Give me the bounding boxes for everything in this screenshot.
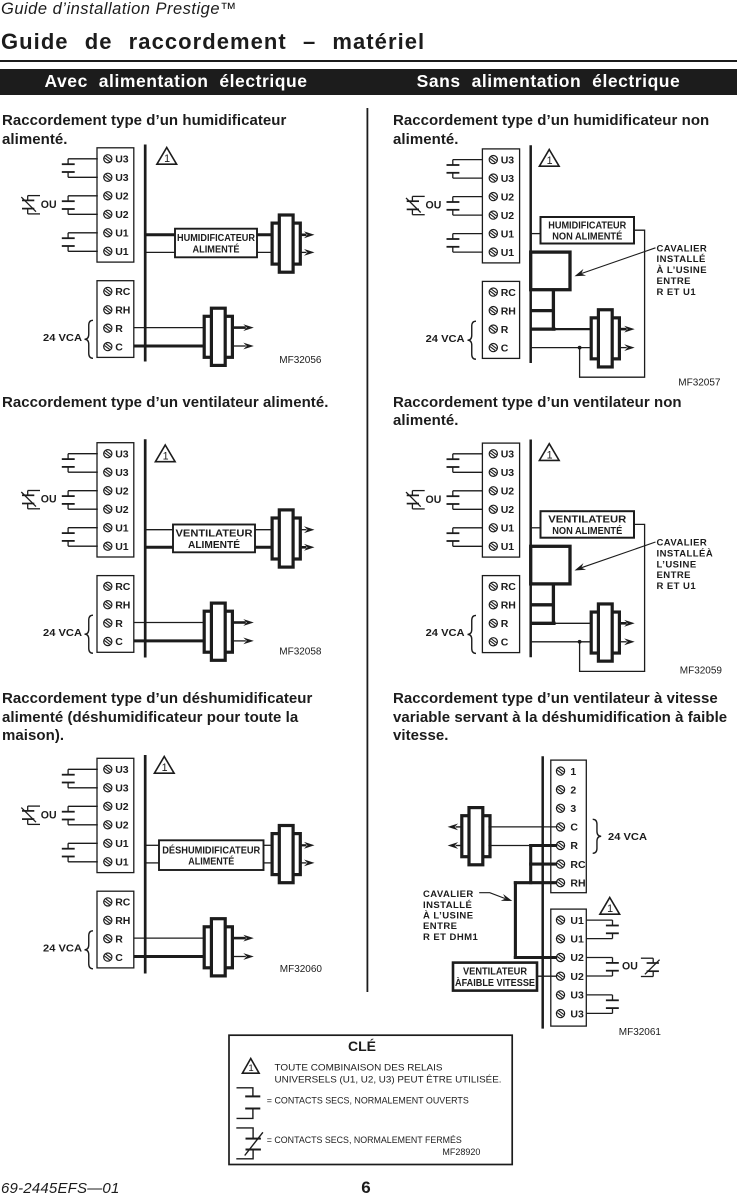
terminal U1 (U relays (D4)) [489,542,497,550]
terminal RH (power (D4)) [489,601,497,609]
wire U1b to load (D1) [146,251,175,253]
device box VENTILATEUR D3 [173,525,255,553]
wire C (D3) [134,639,206,642]
note CAVALIER (D2) [657,243,708,298]
terminal U2 (U relays (D4)) [489,487,497,495]
svg-text:HUMIDIFICATEUR: HUMIDIFICATEUR [548,219,626,231]
svg-text:RC: RC [115,897,131,909]
svg-text:U3: U3 [501,154,515,166]
svg-text:VENTILATEUR: VENTILATEUR [176,528,253,540]
arrow lower out a (D3) [233,621,246,624]
terminal block power (D2) [482,281,519,358]
terminal R (power (D3)) [104,619,112,627]
svg-text:À L’USINE: À L’USINE [423,911,474,922]
svg-text:VENTILATEUR: VENTILATEUR [548,514,626,526]
svg-text:RC: RC [570,859,586,871]
wire load to connector a (D5) [264,844,274,846]
svg-text:DÉSHUMIDIFICATEUR: DÉSHUMIDIFICATEUR [162,843,260,856]
warning symbol 1 D3 [155,445,175,463]
wire fan to U2 (D6) [537,975,556,977]
terminal C (power (D2)) [489,344,497,352]
terminal block power (D1) [97,281,134,358]
leader arrow to jumper (D2) [582,248,656,274]
svg-text:RH: RH [570,877,585,889]
brace 24 VCA (D6) [593,819,602,853]
terminal U2 (U relays (D5)) [104,821,112,829]
jumper loop R-U1 (D2) [531,252,570,290]
svg-text:OU: OU [426,494,442,506]
terminal block U relays (D1) [97,148,134,262]
jumper loop R-U1 (D4) [531,546,570,584]
jumper RH bar (D2) [530,309,554,312]
wire U1b to load (D5) [146,862,159,864]
wire U1b to load (D3) [146,546,173,549]
terminal U2 (U relays (D1)) [104,192,112,200]
svg-text:C: C [501,637,509,649]
page title [1,29,425,55]
svg-text:RC: RC [501,581,517,593]
note CAVALIER (D6) [423,889,479,943]
jumper R bar (D2) [530,327,556,330]
svg-text:R: R [115,933,123,945]
svg-text:U2: U2 [501,486,515,498]
svg-text:RH: RH [115,305,130,317]
svg-text:ALIMENTÉ: ALIMENTÉ [188,855,234,868]
svg-text:INSTALLÉ: INSTALLÉ [423,900,472,911]
svg-text:= CONTACTS SECS, NORMALEMENT F: = CONTACTS SECS, NORMALEMENT FERMÉS [267,1135,462,1146]
connector upper (D3) [272,510,300,567]
terminal RC (power (D2)) [489,288,497,296]
svg-text:1: 1 [163,451,169,463]
svg-text:U2: U2 [115,504,129,516]
connector lower (D5) [204,919,232,976]
arrow upper out a (D1) [300,234,306,237]
connector lower (D1) [204,308,232,365]
svg-text:U1: U1 [570,915,584,927]
wire U1 to load (D4) [532,527,541,529]
terminal U2 (U relays (D6)) [556,953,564,961]
contact NC alternative (D2) [406,196,425,214]
wire load to connector a (D1) [257,233,274,236]
terminal U3 (U relays (D1)) [104,155,112,163]
wire bus D4 [529,440,532,658]
contact NO U2 relay input (D1) [62,196,98,215]
terminal U3 (U relays (D3)) [104,468,112,476]
contact NO U1 relay input (D3) [62,528,98,547]
svg-text:U2: U2 [501,210,515,222]
svg-text:ENTRE: ENTRE [657,276,691,287]
svg-text:NON ALIMENTÉ: NON ALIMENTÉ [552,230,622,243]
junction C junction (D4) [578,640,582,644]
terminal U3 (U relays (D2)) [489,174,497,182]
terminal U2 (U relays (D2)) [489,211,497,219]
contact NO U2 relay input (D2) [447,197,483,216]
wire C (D5) [134,955,206,958]
wire C (D2) [532,347,593,349]
note CAVALIER (D4) [657,538,714,593]
svg-text:1: 1 [248,1063,253,1074]
svg-text:OU: OU [41,494,57,506]
wire load return loop (D4) [580,524,645,671]
terminal 1 (EIM power (D6)) [556,767,564,775]
svg-text:U1: U1 [115,522,129,534]
svg-text:MF32060: MF32060 [280,964,323,975]
svg-text:U3: U3 [501,173,515,185]
terminal RC (power (D3)) [104,582,112,590]
svg-text:U3: U3 [501,467,515,479]
wire bus D5 [144,755,147,974]
svg-text:U3: U3 [115,783,129,795]
terminal block U relays (D5) [97,758,134,872]
svg-text:U1: U1 [115,228,129,240]
svg-text:MF32057: MF32057 [678,378,721,389]
svg-text:1: 1 [547,449,553,461]
connector (D2) [591,310,619,367]
jumper RC bar (D6) [529,863,556,866]
terminal R (power (D2)) [489,325,497,333]
jumper R stub (D6) [529,844,556,847]
svg-text:VENTILATEUR: VENTILATEUR [463,966,527,978]
svg-text:U1: U1 [115,857,129,869]
wire C (D1) [134,345,206,348]
terminal C (power (D1)) [104,343,112,351]
arrow lower out b (D1) [233,345,246,347]
wire U1a to load (D1) [146,233,175,236]
contact NO U3 relay input (D2) [447,160,483,179]
svg-text:R: R [501,618,509,630]
svg-text:3: 3 [570,803,576,815]
terminal RC (power (D5)) [104,898,112,906]
svg-text:24 VCA: 24 VCA [43,333,82,344]
wire load to connector b (D3) [255,546,274,549]
svg-text:U3: U3 [115,172,129,184]
jumper RH bar (D6) [514,881,557,884]
brace 24 VCA (D5) [85,931,94,969]
terminal U2 (U relays (D4)) [489,505,497,513]
terminal RH (EIM power (D6)) [556,879,564,887]
svg-text:MF32061: MF32061 [619,1027,662,1038]
brace 24 VCA (D2) [468,321,477,359]
svg-text:U1: U1 [501,247,515,259]
contact NO U1 relay input (D4) [447,528,483,547]
terminal RC (power (D4)) [489,582,497,590]
arrow upper out a (D5) [300,844,306,846]
terminal U3 (U relays (D4)) [489,468,497,476]
terminal R (power (D5)) [104,935,112,943]
terminal RC (EIM power (D6)) [556,860,564,868]
svg-text:UNIVERSELS (U1, U2, U3) PEUT Ê: UNIVERSELS (U1, U2, U3) PEUT ÊTRE UTILIS… [275,1074,502,1084]
contact NO U2 relay input (D5) [62,806,98,825]
wire load to connector a (D3) [255,529,274,531]
svg-text:24 VCA: 24 VCA [608,832,647,843]
wire R (D6) [488,845,529,847]
svg-text:U1: U1 [115,541,129,553]
leader arrow to jumper (D6) [479,893,505,899]
terminal C (EIM power (D6)) [556,823,564,831]
svg-text:MF32056: MF32056 [279,355,322,366]
brace 24 VCA (D3) [85,615,94,653]
wire bus D3 [144,439,147,657]
wire R (D3) [134,622,206,624]
svg-text:U2: U2 [570,952,584,964]
svg-text:TOUTE COMBINAISON DES RELAIS: TOUTE COMBINAISON DES RELAIS [275,1062,443,1072]
svg-text:24 VCA: 24 VCA [43,628,82,639]
svg-text:ALIMENTÉ: ALIMENTÉ [193,242,240,255]
svg-text:1: 1 [162,762,168,774]
terminal R (power (D4)) [489,619,497,627]
contact NO U1 relay input (D5) [62,843,98,862]
svg-text:U1: U1 [115,246,129,258]
terminal block power (D4) [482,576,519,653]
contact NC alternative (D3) [21,491,40,509]
svg-text:OU: OU [41,199,57,211]
svg-text:CAVALIER: CAVALIER [657,538,708,549]
legend contact NC symbol [236,1128,263,1159]
svg-text:RH: RH [115,915,130,927]
svg-text:U2: U2 [115,191,129,203]
contact NO U1 relay input (D2) [447,234,483,253]
wire bus D2 [529,145,532,363]
svg-text:RH: RH [501,305,516,317]
svg-text:L’USINE: L’USINE [657,559,697,570]
arrow out a (D6) [456,826,462,828]
terminal U3 (U relays (D3)) [104,450,112,458]
svg-text:C: C [570,822,578,834]
svg-text:24 VCA: 24 VCA [426,334,465,345]
svg-text:INSTALLÉ: INSTALLÉ [657,254,706,265]
terminal RH (power (D1)) [104,306,112,314]
svg-text:HUMIDIFICATEUR: HUMIDIFICATEUR [177,232,255,244]
terminal U2 (U relays (D3)) [104,505,112,513]
svg-text:U2: U2 [501,504,515,516]
svg-text:ENTRE: ENTRE [423,921,457,932]
svg-text:1: 1 [547,155,553,167]
svg-text:CAVALIER: CAVALIER [423,889,474,900]
contact NO U3 relay input (D3) [62,454,98,473]
svg-text:U3: U3 [501,449,515,461]
svg-text:RH: RH [501,600,516,612]
svg-text:R ET DHM1: R ET DHM1 [423,932,479,943]
svg-text:U1: U1 [115,838,129,850]
title rule [0,60,737,62]
headings [2,112,286,149]
contact NO U3 relay input (D4) [447,454,483,473]
svg-text:CLÉ: CLÉ [348,1038,376,1054]
terminal RH (power (D3)) [104,601,112,609]
svg-text:RH: RH [115,599,130,611]
contact NC alternative (D1) [21,196,40,214]
terminal U2 (U relays (D6)) [556,972,564,980]
jumper U2 bar (D6) [514,956,557,959]
terminal U1 (U relays (D1)) [104,229,112,237]
jumper vertical (D2) [552,289,555,331]
wire bus D6 [541,756,544,1028]
svg-text:U3: U3 [115,448,129,460]
terminal RH (power (D5)) [104,916,112,924]
arrow out a (D4) [619,622,626,625]
svg-text:1: 1 [164,153,170,165]
terminal U3 (U relays (D6)) [556,1010,564,1018]
arrow upper out a (D3) [300,529,306,531]
svg-text:C: C [115,341,123,353]
wire load to connector b (D1) [257,251,274,253]
svg-text:U3: U3 [570,990,584,1002]
svg-text:INSTALLÉÀ: INSTALLÉÀ [657,548,714,559]
brace 24 VCA (D1) [85,320,94,358]
svg-text:U2: U2 [115,209,129,221]
device box DÉSHUMIDIFICATEUR D5 [159,840,264,870]
svg-text:U2: U2 [115,820,129,832]
connector upper (D5) [272,826,300,883]
warning symbol 1 D1 [157,148,177,166]
terminal block U relays (D6) [551,909,587,1026]
arrow out a (D2) [619,328,626,331]
terminal block U relays (D3) [97,443,134,557]
contact NO U3 relay input (D1) [62,159,98,178]
svg-text:C: C [115,952,123,964]
svg-text:U3: U3 [115,154,129,166]
terminal U2 (U relays (D2)) [489,193,497,201]
wire U1a to load (D5) [146,844,159,846]
svg-text:MF32059: MF32059 [680,666,723,677]
column divider [367,108,369,992]
terminal U1 (U relays (D3)) [104,524,112,532]
svg-text:C: C [115,636,123,648]
footer [1,1180,120,1195]
svg-text:24 VCA: 24 VCA [426,628,465,639]
svg-text:OU: OU [622,961,638,973]
terminal 3 (EIM power (D6)) [556,804,564,812]
svg-text:RC: RC [501,287,517,299]
svg-text:U2: U2 [501,191,515,203]
contact NC alternative (D5) [21,806,40,824]
terminal U1 (U relays (D2)) [489,230,497,238]
wire U1a to load (D3) [146,529,173,531]
terminal U3 (U relays (D1)) [104,173,112,181]
terminal RH (power (D2)) [489,307,497,315]
svg-text:À L’USINE: À L’USINE [657,265,708,276]
jumper vertical RH-U2 (D6) [514,881,517,959]
contact NC alternative (D6) [641,958,660,976]
contact NO U2 relay input (D3) [62,491,98,510]
terminal R (power (D1)) [104,324,112,332]
warning symbol 1 D6 [600,898,620,916]
svg-text:RC: RC [115,581,131,593]
svg-text:2: 2 [570,784,576,796]
warning symbol 1 D2 [539,150,559,168]
svg-text:NON ALIMENTÉ: NON ALIMENTÉ [552,524,622,537]
svg-text:U1: U1 [501,228,515,240]
device box HUMIDIFICATEUR D2 [541,217,635,244]
wire R (D2) [555,328,593,330]
contact NO U1 relay input (D1) [62,233,98,252]
svg-text:U3: U3 [570,1008,584,1020]
contact NO U3 relay input (D5) [62,769,98,788]
svg-text:ALIMENTÉ: ALIMENTÉ [188,538,240,551]
arrow upper out b (D5) [300,862,306,864]
terminal U3 (U relays (D2)) [489,156,497,164]
wire R (D5) [134,937,206,939]
svg-text:RC: RC [115,286,131,298]
arrow out b (D2) [619,347,626,349]
svg-text:ENTRE: ENTRE [657,570,691,581]
svg-text:OU: OU [426,200,442,212]
arrow lower out b (D3) [233,640,246,642]
warning symbol 1 D4 [539,444,559,462]
running header [1,0,237,19]
terminal C (power (D3)) [104,637,112,645]
terminal U1 (U relays (D6)) [556,935,564,943]
terminal U1 (U relays (D4)) [489,524,497,532]
svg-text:R: R [115,618,123,630]
svg-text:1: 1 [570,766,576,778]
jumper vertical (D4) [552,583,555,625]
terminal block U relays (D2) [482,149,519,263]
leader arrow to jumper (D4) [582,542,656,568]
terminal U3 (U relays (D4)) [489,450,497,458]
terminal U3 (U relays (D5)) [104,784,112,792]
junction C junction (D2) [578,346,582,350]
terminal U1 (U relays (D6)) [556,916,564,924]
svg-text:U2: U2 [570,971,584,983]
jumper R bar (D4) [530,622,556,625]
svg-text:OU: OU [41,809,57,821]
connector lower (D3) [204,603,232,660]
device box HUMIDIFICATEUR D1 [175,229,257,258]
warning symbol 1 D5 [154,757,174,775]
svg-text:U3: U3 [115,467,129,479]
wire C (D6) [488,826,556,828]
svg-text:R: R [501,324,509,336]
svg-text:U1: U1 [501,541,515,553]
terminal U1 (U relays (D2)) [489,248,497,256]
jumper vertical R-RH (D6) [529,844,532,884]
arrow upper out b (D1) [300,251,306,253]
warning symbol 1 legend [242,1059,259,1075]
connector (D4) [591,604,619,661]
arrow lower out a (D1) [233,326,246,329]
terminal U1 (U relays (D5)) [104,858,112,866]
svg-text:U2: U2 [115,485,129,497]
svg-text:CAVALIER: CAVALIER [657,243,708,254]
contact NO U3 relay input (D6) [586,995,619,1014]
device box VENTILATEUR D4 [541,511,635,538]
arrow upper out b (D3) [300,546,306,549]
terminal U2 (U relays (D1)) [104,210,112,218]
arrow lower out b (D5) [233,956,246,958]
terminal block power (D5) [97,891,134,968]
terminal C (power (D4)) [489,638,497,646]
terminal block power (D3) [97,576,134,653]
contact NO U2 relay input (D4) [447,491,483,510]
column header bar [0,69,737,95]
terminal RC (power (D1)) [104,287,112,295]
wire load to connector b (D5) [264,862,274,864]
wire C (D4) [532,641,593,643]
svg-text:U1: U1 [570,934,584,946]
svg-text:R ET U1: R ET U1 [657,287,697,298]
contact NO U2 relay input (D6) [586,958,619,977]
svg-text:R ET U1: R ET U1 [657,581,697,592]
device box VENTILATEUR D6 [453,963,537,991]
svg-text:U3: U3 [115,764,129,776]
svg-text:= CONTACTS SECS, NORMALEMENT O: = CONTACTS SECS, NORMALEMENT OUVERTS [267,1096,469,1107]
jumper RH bar (D4) [530,603,554,606]
wire bus D1 [144,145,147,362]
terminal U1 (U relays (D5)) [104,839,112,847]
legend contact NO symbol [237,1088,261,1119]
terminal U3 (U relays (D5)) [104,765,112,773]
